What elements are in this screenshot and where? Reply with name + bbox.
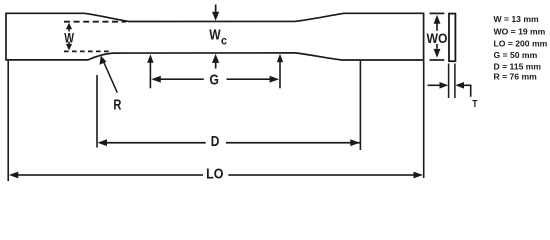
svg-text:G = 50 mm: G = 50 mm	[494, 50, 538, 60]
svg-text:D = 115 mm: D = 115 mm	[494, 61, 542, 71]
svg-text:R: R	[113, 96, 121, 113]
svg-text:T: T	[472, 98, 478, 110]
LO right extension line	[423, 61, 425, 178]
D right extension line	[359, 61, 361, 150]
D left extension line	[96, 75, 98, 148]
T left arrow	[428, 82, 449, 89]
dashed extension line W top	[64, 21, 126, 23]
G dimension horizontal line with outward arrowheads	[151, 76, 279, 83]
svg-text:D: D	[211, 133, 220, 150]
G right vertical arrow	[277, 54, 283, 89]
svg-text:WO: WO	[427, 30, 448, 46]
svg-text:W = 13 mm: W = 13 mm	[494, 14, 539, 24]
D dimension line with arrowheads	[98, 139, 360, 146]
T right arrow with bent leader	[455, 82, 471, 97]
dashed extension line W bottom	[64, 50, 110, 52]
svg-text:LO = 200 mm: LO = 200 mm	[494, 39, 548, 49]
G left vertical arrow	[147, 54, 153, 88]
T left extension line	[448, 64, 450, 99]
WO vertical double arrow	[434, 15, 441, 58]
WO top extension tick	[430, 12, 445, 14]
R leader arrow	[100, 56, 118, 93]
LO dimension line with arrowheads	[9, 172, 423, 179]
dimension Wc top arrow	[212, 5, 219, 21]
specimen outline (dog-bone top view)	[6, 13, 424, 60]
label Wc	[209, 27, 227, 48]
dimension W up arrow	[66, 23, 72, 32]
side view thin rectangle (thickness T)	[449, 14, 455, 62]
T right extension line	[454, 64, 456, 99]
svg-text:c: c	[221, 34, 227, 48]
dimension Wc bottom arrow	[212, 54, 219, 69]
LO left extension line	[7, 61, 9, 181]
dimension W down arrow	[66, 42, 72, 51]
svg-text:WO = 19 mm: WO = 19 mm	[494, 26, 546, 36]
svg-text:G: G	[210, 72, 219, 89]
svg-text:LO: LO	[206, 165, 224, 182]
svg-text:W: W	[209, 27, 221, 44]
WO bottom extension tick	[430, 59, 445, 61]
svg-text:R = 76 mm: R = 76 mm	[494, 71, 538, 81]
